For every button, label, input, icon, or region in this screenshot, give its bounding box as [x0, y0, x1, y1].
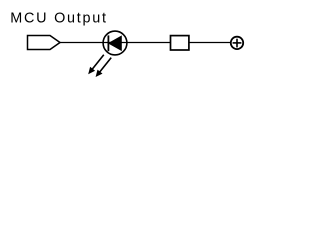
wire (resistor to + terminal): [189, 42, 231, 44]
+ sign: [233, 39, 242, 48]
LED cathode bar: [107, 35, 109, 51]
svg-text:MCU Output: MCU Output: [10, 10, 107, 26]
resistor: [171, 36, 189, 50]
net label "MCU Output": [10, 10, 107, 26]
LED anode triangle (pointing left): [109, 36, 122, 50]
+ supply terminal circle: [231, 37, 243, 49]
LED light-emission arrow 2: [96, 58, 112, 77]
port flag (MCU Output): [28, 36, 61, 50]
wire (MCU Output net, through LED to resistor): [60, 42, 171, 44]
LED circle: [103, 31, 127, 55]
LED light-emission arrow 1: [88, 55, 104, 74]
